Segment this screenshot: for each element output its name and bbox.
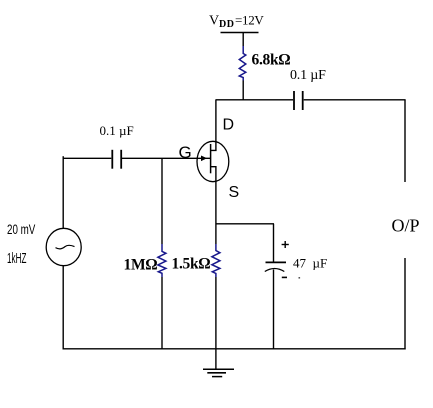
resistor 1.5k zigzag	[212, 244, 220, 277]
wire source to bypass cap horizontal	[216, 223, 274, 225]
source V1 sine	[56, 245, 75, 249]
wire 1M lower	[161, 277, 163, 349]
wire cap to right edge	[304, 99, 406, 101]
ground bar 2	[207, 372, 226, 374]
svg-text:S: S	[229, 184, 240, 201]
capacitor C3 curved bottom plate	[265, 269, 285, 272]
svg-text:6.8kΩ: 6.8kΩ	[252, 52, 291, 69]
minus sign	[282, 276, 287, 278]
capacitor C2 0.1uF plates	[293, 91, 295, 110]
wire R6.8k bottom lead	[242, 81, 244, 101]
ground bar 3	[212, 376, 222, 378]
gate arrow	[201, 156, 207, 162]
svg-text:G: G	[179, 143, 192, 162]
wire left vertical lower	[62, 266, 64, 349]
wire source vertical upper	[215, 182, 217, 244]
capacitor C1 0.1uF plates	[111, 150, 113, 169]
wire left vertical upper	[62, 156, 64, 229]
svg-text:=12V: =12V	[235, 13, 264, 28]
transistor Q1 channel bar	[210, 144, 212, 173]
capacitor C3 47uF top plate	[266, 261, 287, 263]
svg-text:DD: DD	[219, 19, 234, 30]
wire drain vertical	[211, 100, 216, 151]
node VDD label	[209, 13, 264, 31]
transistor Q1 source lead inside	[211, 167, 216, 182]
svg-text:1.5kΩ: 1.5kΩ	[172, 256, 211, 273]
wire drain node horizontal	[216, 99, 294, 101]
svg-text:1kHZ: 1kHZ	[7, 251, 26, 267]
wire gate horizontal from cap to channel	[121, 157, 211, 159]
VDD power rail	[221, 32, 259, 34]
svg-text:O/P: O/P	[392, 216, 420, 236]
svg-text:1MΩ: 1MΩ	[124, 257, 158, 274]
ground stub	[215, 349, 217, 370]
svg-text:20 mV: 20 mV	[7, 221, 35, 237]
wire VDD rail to R 6.8k	[242, 33, 244, 47]
stray dot	[299, 277, 301, 279]
wire bottom rail	[63, 348, 406, 350]
svg-text:0.1 µF: 0.1 µF	[100, 123, 134, 138]
transistor Q1 JFET circle	[197, 141, 229, 181]
svg-text:D: D	[223, 116, 235, 133]
wire bypass cap bottom lead	[273, 270, 275, 350]
source V1 circle	[46, 228, 81, 265]
ground bar 1	[203, 368, 234, 370]
plus sign	[282, 241, 289, 248]
svg-text:0.1 µF: 0.1 µF	[290, 68, 326, 83]
wire source vertical lower	[215, 277, 217, 349]
svg-text:V: V	[209, 14, 219, 29]
wire right vertical top segment	[404, 100, 406, 182]
wire right vertical bottom segment	[404, 258, 406, 350]
resistor 1M zigzag	[158, 244, 166, 277]
resistor 6.8k zigzag	[239, 46, 246, 81]
wire 1M vertical	[161, 158, 163, 244]
svg-text:47 µF: 47 µF	[293, 256, 327, 271]
wire input left horizontal	[63, 157, 112, 159]
wire bypass cap top lead	[273, 224, 275, 262]
